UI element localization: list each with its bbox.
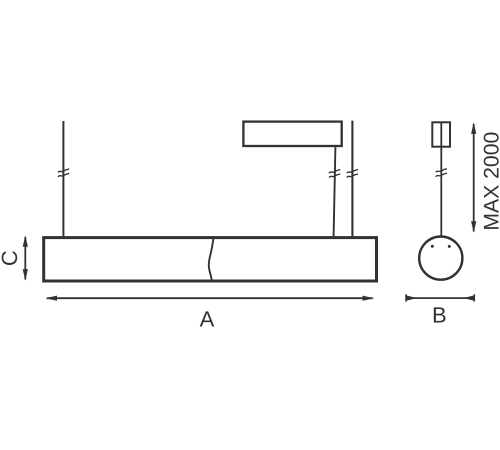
svg-text:A: A [200, 306, 215, 331]
svg-text:B: B [432, 302, 447, 327]
svg-text:MAX 2000: MAX 2000 [480, 132, 500, 231]
svg-text:C: C [0, 250, 22, 266]
